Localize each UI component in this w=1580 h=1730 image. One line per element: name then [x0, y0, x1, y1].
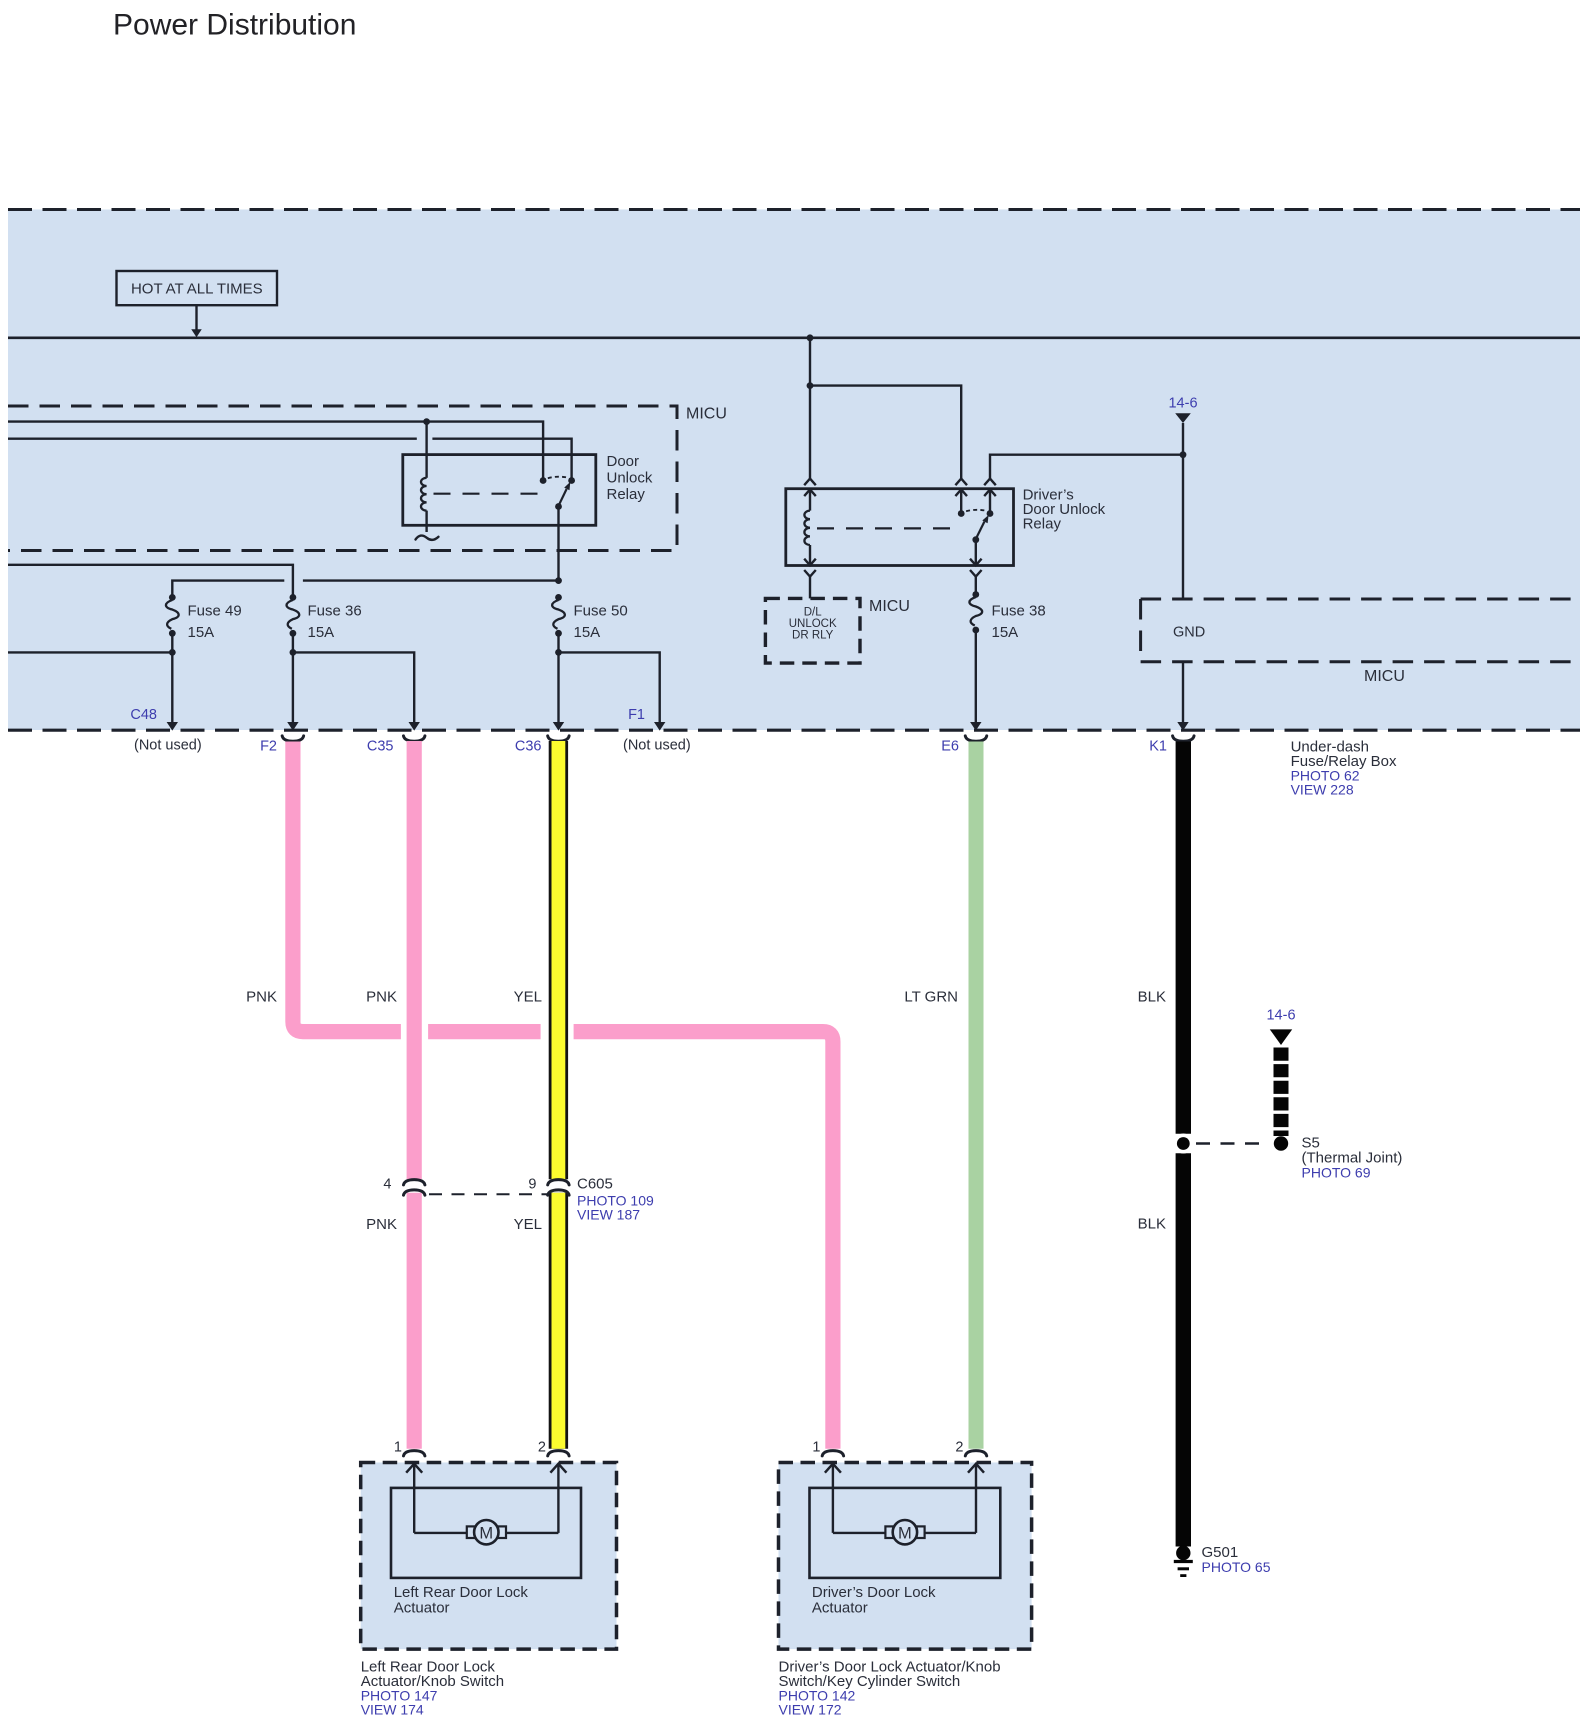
MICU label (D/L box)	[869, 598, 910, 615]
door unlock relay mechanical link dashed	[434, 493, 541, 495]
svg-text:VIEW 172: VIEW 172	[779, 1701, 842, 1717]
C48 label	[130, 707, 157, 723]
YEL label (C36 wire)	[514, 989, 542, 1006]
Door Unlock Relay label	[607, 453, 653, 503]
svg-text:15A: 15A	[992, 624, 1019, 641]
svg-text:2: 2	[955, 1440, 963, 1456]
K1 label	[1149, 739, 1167, 755]
wire: GND box to K1	[1182, 662, 1184, 723]
coil case squiggle	[416, 536, 439, 540]
arrow: C48 terminal	[167, 722, 178, 731]
wire: feed to Fuse 36	[8, 565, 293, 598]
wire: BLK from K1 to G501	[1176, 742, 1191, 1547]
wire: Fuse 49 output to left edge	[8, 649, 176, 656]
svg-text:E6: E6	[941, 739, 959, 755]
svg-text:C48: C48	[130, 707, 157, 723]
F1 label	[628, 707, 645, 723]
door unlock relay arm	[559, 482, 571, 506]
wire: 14-6 heavy dashed branch to S5	[1274, 1048, 1289, 1137]
MICU module dashed box (left)	[8, 406, 677, 551]
wire: MICU internal feed to door unlock relay fixed contact	[8, 422, 543, 480]
wire: Fuse 36 output to C35	[293, 652, 414, 722]
wire: pin1 to motor (driver's)	[833, 1532, 886, 1534]
connector cup K1	[1173, 736, 1194, 741]
pin 2 entry arrow (driver's actuator)	[968, 1464, 984, 1533]
svg-text:(Not used): (Not used)	[623, 738, 691, 754]
svg-text:C35: C35	[367, 739, 394, 755]
coil of Door Unlock Relay	[421, 422, 427, 532]
connector cup F2	[282, 736, 303, 741]
door unlock relay contact travel dashed arc	[548, 477, 567, 479]
wire: 14-6 feed to relay moving contact	[990, 455, 1183, 479]
svg-text:MICU: MICU	[686, 406, 727, 423]
svg-text:Driver’s Door Lock: Driver’s Door Lock	[812, 1584, 936, 1601]
svg-text:F2: F2	[260, 739, 277, 755]
arrow: C35 terminal	[409, 722, 420, 731]
splice S5 on BLK wire	[1173, 1134, 1193, 1154]
svg-text:VIEW 174: VIEW 174	[361, 1701, 424, 1717]
Left Rear Door Lock Actuator inner label	[394, 1584, 529, 1617]
LT GRN label (E6 wire)	[904, 989, 958, 1006]
svg-text:HOT AT ALL TIMES: HOT AT ALL TIMES	[131, 281, 263, 298]
motor M (driver's actuator)	[885, 1520, 924, 1544]
svg-text:Fuse 38: Fuse 38	[992, 603, 1046, 620]
inner box: Left Rear Door Lock Actuator	[391, 1488, 581, 1578]
wire: Fuse 50 output to F1	[559, 652, 660, 722]
C35 label	[367, 739, 394, 755]
driver's relay moving contact top	[987, 510, 994, 517]
component box: Left Rear Door Lock Actuator/Knob Switch	[361, 1463, 617, 1650]
Driver's Door Lock Actuator inner label	[812, 1584, 936, 1617]
PNK label (F2 wire)	[246, 989, 277, 1006]
svg-text:M: M	[479, 1524, 493, 1542]
PNK label (below C605)	[366, 1216, 397, 1233]
F2 label	[260, 739, 277, 755]
svg-text:15A: 15A	[188, 624, 215, 641]
arrow: E6 terminal	[970, 722, 981, 731]
MICU GND dashed box	[1141, 599, 1580, 662]
svg-text:1: 1	[394, 1440, 402, 1456]
svg-text:1: 1	[812, 1440, 820, 1456]
connector cup driver's actuator pin 1	[822, 1451, 843, 1456]
HOT AT ALL TIMES label box	[117, 271, 278, 305]
svg-text:9: 9	[528, 1177, 536, 1193]
pin 1 entry arrow (left actuator)	[406, 1464, 422, 1533]
svg-text:YEL: YEL	[514, 989, 542, 1006]
inner box: Driver's Door Lock Actuator	[810, 1488, 1001, 1578]
C36 label	[515, 739, 542, 755]
D/L UNLOCK DR RLY label	[789, 607, 837, 642]
svg-text:VIEW 228: VIEW 228	[1291, 782, 1354, 798]
component box: Driver's Door Lock Actuator/Knob Switch/Key Cylinder Switch	[779, 1463, 1032, 1650]
connector cup driver's actuator pin 2	[965, 1451, 986, 1456]
svg-text:Power Distribution: Power Distribution	[113, 9, 356, 42]
junction on coil feed	[807, 382, 814, 389]
Fuse 50 label	[574, 603, 628, 642]
ground G501	[1174, 1546, 1193, 1576]
door unlock relay moving contact top	[568, 477, 575, 484]
Fuse 49 label	[188, 603, 242, 642]
YEL label (below C605)	[514, 1216, 542, 1233]
arrow: K1 terminal	[1177, 722, 1188, 731]
svg-text:GND: GND	[1173, 625, 1205, 641]
svg-text:UNLOCK: UNLOCK	[789, 618, 837, 630]
wire: relay output bus to Fuse 49 / Fuse 50	[172, 577, 562, 597]
pin number 4	[383, 1177, 391, 1193]
svg-text:Fuse 50: Fuse 50	[574, 603, 628, 620]
wire: pin2 to motor (driver's)	[925, 1532, 976, 1534]
svg-text:Door: Door	[607, 453, 640, 470]
14-6 page reference (S5 branch)	[1266, 1008, 1295, 1046]
wire: bus down to driver's relay coil	[809, 338, 811, 479]
svg-text:2: 2	[538, 1440, 546, 1456]
wire: MICU internal feed to door unlock relay moving contact	[8, 439, 572, 480]
PNK label (C35 wire)	[366, 989, 397, 1006]
svg-text:PNK: PNK	[246, 989, 277, 1006]
wire: pin1 to motor (left)	[414, 1532, 467, 1534]
connector C605 pin 9 halves	[548, 1180, 569, 1196]
svg-text:LT GRN: LT GRN	[904, 989, 958, 1006]
connector cup E6	[965, 736, 986, 741]
svg-text:14-6: 14-6	[1266, 1008, 1295, 1024]
C605 caption	[577, 1176, 654, 1223]
Driver's Door Unlock Relay label	[1023, 487, 1106, 533]
MICU label (left box)	[686, 406, 727, 423]
svg-text:Fuse 36: Fuse 36	[308, 603, 362, 620]
svg-text:Left Rear Door Lock: Left Rear Door Lock	[394, 1584, 529, 1601]
Fuse 38 label	[992, 603, 1046, 642]
svg-text:PHOTO 65: PHOTO 65	[1202, 1559, 1271, 1575]
Driver's actuator caption	[779, 1658, 1001, 1717]
Under-dash Fuse/Relay Box caption	[1291, 739, 1397, 798]
pin number 9	[528, 1177, 536, 1193]
S5 caption	[1302, 1135, 1403, 1181]
arrow: C36 terminal	[553, 722, 564, 731]
driver's relay top pin connectors	[804, 479, 996, 514]
S5 dashed link	[1196, 1142, 1266, 1145]
arrow: F2 terminal	[287, 722, 298, 731]
junction: bus tap for driver's door unlock relay	[807, 334, 814, 341]
svg-text:Relay: Relay	[1023, 516, 1062, 533]
pin 1 entry arrow (driver's actuator)	[825, 1464, 841, 1533]
pin number 1 (driver's actuator)	[812, 1440, 820, 1456]
svg-text:15A: 15A	[574, 624, 601, 641]
junction on 14-6 line	[1180, 451, 1187, 458]
svg-text:PNK: PNK	[366, 1216, 397, 1233]
BLK label (below S5)	[1138, 1216, 1166, 1233]
door unlock relay fixed contact	[540, 477, 547, 484]
svg-text:Actuator: Actuator	[394, 1599, 450, 1616]
svg-text:C605: C605	[577, 1176, 613, 1193]
wire: driver's relay coil to D/L UNLOCK DR RLY	[809, 577, 811, 599]
wire: battery feed bus	[8, 336, 1580, 339]
wire: coil feed branch to relay fixed contact	[810, 386, 961, 479]
14-6 page reference (top)	[1168, 396, 1197, 424]
pin number 2 (left actuator)	[538, 1440, 546, 1456]
under-dash fuse/relay box top dashed border	[8, 208, 1580, 211]
pin number 1 (left actuator)	[394, 1440, 402, 1456]
svg-text:Relay: Relay	[607, 486, 646, 503]
wire: driver's relay output to Fuse 38	[975, 577, 977, 595]
S5 branch end dot	[1274, 1136, 1288, 1150]
pin 2 entry arrow (left actuator)	[550, 1464, 566, 1533]
svg-text:4: 4	[383, 1177, 391, 1193]
wire: PNK from F2 to driver's door lock actuator pin 1	[293, 742, 833, 1449]
connector cup C36	[548, 736, 569, 741]
svg-text:15A: 15A	[308, 624, 335, 641]
driver's relay bottom pin connectors	[804, 540, 981, 577]
driver's relay mechanical link dashed	[817, 527, 956, 529]
fuse F49 (Fuse 49 15A)	[166, 594, 179, 723]
svg-text:DR RLY: DR RLY	[792, 630, 834, 642]
fuse F38 (Fuse 38 15A)	[969, 591, 982, 723]
svg-text:YEL: YEL	[514, 1216, 542, 1233]
svg-text:MICU: MICU	[869, 598, 910, 615]
fuse F50 (Fuse 50 15A)	[552, 594, 565, 723]
Fuse 36 label	[308, 603, 362, 642]
svg-text:D/L: D/L	[804, 607, 823, 619]
pin number 2 (driver's actuator)	[955, 1440, 963, 1456]
wire: YEL from C36 to C605 pin 9 and on to left actuator pin 2	[549, 741, 568, 1449]
wire: 14-6 line down to GND box	[1182, 423, 1184, 599]
relay box: Driver's Door Unlock Relay	[786, 489, 1014, 566]
fuse F36 (Fuse 36 15A)	[287, 594, 300, 723]
GND label	[1173, 625, 1205, 641]
under-dash fuse/relay box interior (blue panel)	[8, 210, 1580, 731]
svg-text:BLK: BLK	[1138, 1216, 1166, 1233]
driver's relay pivot	[972, 536, 979, 543]
svg-text:M: M	[898, 1524, 912, 1542]
coil of driver's relay	[804, 511, 810, 545]
driver's relay fixed contact	[958, 510, 965, 517]
svg-text:C36: C36	[515, 739, 542, 755]
under-dash fuse/relay box bottom dashed border	[8, 729, 1580, 732]
motor M (left actuator)	[467, 1520, 506, 1544]
svg-text:K1: K1	[1149, 739, 1167, 755]
(Not used) label C48	[134, 738, 202, 754]
wire: LT GRN from E6 to driver's actuator pin 2	[969, 742, 984, 1449]
MICU D/L UNLOCK DR RLY dashed box	[765, 598, 860, 663]
svg-text:PHOTO 69: PHOTO 69	[1302, 1165, 1371, 1181]
(Not used) label F1	[623, 738, 691, 754]
BLK label (K1 wire upper)	[1138, 989, 1166, 1006]
connector cup C35	[404, 736, 425, 741]
E6 label	[941, 739, 959, 755]
arrow from HOT AT ALL TIMES to bus	[191, 305, 202, 337]
MICU label (GND box)	[1364, 668, 1405, 685]
Left actuator caption	[361, 1658, 504, 1717]
svg-text:(Not used): (Not used)	[134, 738, 202, 754]
svg-text:VIEW 187: VIEW 187	[577, 1207, 640, 1223]
connector cup left actuator pin 1	[404, 1451, 425, 1456]
arrow: F1 terminal	[654, 722, 665, 731]
svg-text:Fuse 49: Fuse 49	[188, 603, 242, 620]
wire: PNK from C35 to C605 pin 4 and on to left actuator pin 1	[407, 741, 422, 1449]
connector C605 dashed pairing line	[429, 1193, 547, 1195]
title: Power Distribution	[113, 9, 356, 42]
connector C605 pin 4 halves	[404, 1180, 425, 1196]
driver's relay arm	[976, 515, 989, 539]
connector cup left actuator pin 2	[548, 1451, 569, 1456]
svg-text:Unlock: Unlock	[607, 470, 653, 487]
svg-text:14-6: 14-6	[1168, 396, 1197, 412]
svg-text:F1: F1	[628, 707, 645, 723]
svg-text:BLK: BLK	[1138, 989, 1166, 1006]
driver's relay contact travel dashed arc	[966, 510, 985, 512]
svg-text:PNK: PNK	[366, 989, 397, 1006]
wire: door unlock relay output down to fuse bus	[557, 507, 559, 581]
svg-text:MICU: MICU	[1364, 668, 1405, 685]
svg-text:Actuator: Actuator	[812, 1599, 868, 1616]
junction: coil tap on wire1	[423, 418, 430, 425]
G501 caption	[1202, 1544, 1271, 1575]
relay box: Door Unlock Relay	[403, 455, 596, 526]
wire: pin2 to motor (left)	[506, 1532, 558, 1534]
door unlock relay pivot	[555, 503, 562, 510]
